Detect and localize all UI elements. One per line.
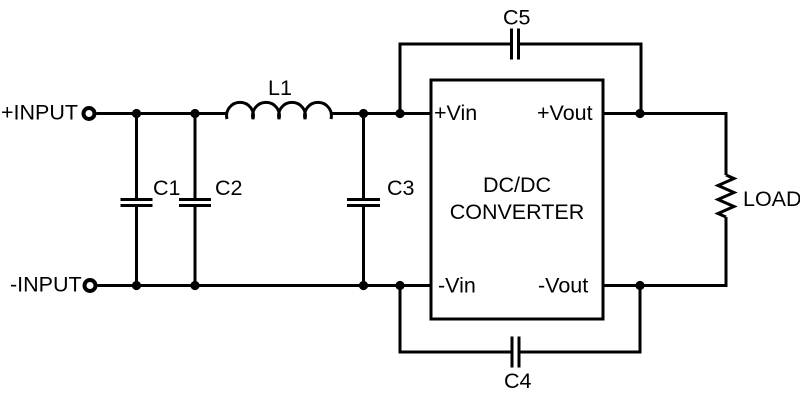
- capacitor C4: [399, 337, 642, 368]
- svg-text:C3: C3: [387, 176, 415, 200]
- svg-text:C1: C1: [153, 176, 180, 200]
- svg-text:C4: C4: [504, 369, 532, 393]
- svg-text:C5: C5: [503, 6, 531, 30]
- svg-text:DC/DC: DC/DC: [483, 173, 551, 197]
- junction dot +Vout / C5: [635, 109, 644, 118]
- junction dot C1 top: [132, 109, 141, 118]
- wire load bottom: [725, 217, 728, 287]
- inductor L1: [227, 102, 332, 119]
- wire +Vout to load: [603, 112, 728, 115]
- svg-text:-Vout: -Vout: [538, 274, 588, 298]
- wire L1 to +Vin: [330, 112, 431, 115]
- capacitor C5: [399, 29, 643, 60]
- junction dot C2 top: [190, 109, 199, 118]
- junction dot -Vin / C4: [395, 281, 404, 290]
- capacitor C2: [179, 114, 211, 286]
- svg-text:-INPUT: -INPUT: [10, 273, 82, 297]
- capacitor C1: [121, 114, 153, 286]
- svg-text:+Vout: +Vout: [537, 101, 593, 125]
- svg-text:L1: L1: [268, 76, 292, 100]
- svg-text:LOAD: LOAD: [743, 187, 800, 211]
- terminal +INPUT: [84, 108, 95, 119]
- wire C5 branch right: [640, 43, 643, 114]
- junction dot C1 bottom: [132, 281, 141, 290]
- wire C5 branch left: [399, 43, 402, 116]
- resistor LOAD: [718, 175, 734, 217]
- svg-text:C2: C2: [215, 176, 242, 200]
- junction dot C3 bottom: [359, 281, 368, 290]
- svg-text:CONVERTER: CONVERTER: [450, 200, 585, 224]
- junction dot C2 bottom: [190, 281, 199, 290]
- svg-text:+INPUT: +INPUT: [1, 101, 78, 125]
- wire +input to L1: [97, 112, 229, 115]
- junction dot C3 top: [359, 109, 368, 118]
- wire -Vout to load: [603, 284, 728, 287]
- wire load top: [725, 112, 728, 175]
- junction dot -Vout / C4: [635, 281, 644, 290]
- DC/DC converter box U1: [431, 80, 603, 319]
- capacitor C3: [347, 114, 380, 286]
- wire C4 branch left: [399, 286, 402, 354]
- wire C4 branch right: [639, 286, 642, 354]
- wire bottom rail: [98, 284, 432, 287]
- junction dot C5 branch top rail: [395, 109, 404, 118]
- terminal -INPUT: [85, 280, 96, 291]
- svg-text:-Vin: -Vin: [438, 274, 476, 298]
- svg-text:+Vin: +Vin: [434, 101, 477, 125]
